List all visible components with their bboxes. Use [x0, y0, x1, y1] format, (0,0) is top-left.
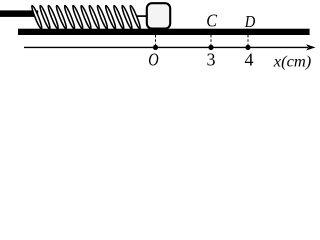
svg-text:O: O — [148, 49, 158, 69]
svg-text:4: 4 — [245, 49, 254, 69]
svg-text:3: 3 — [207, 49, 216, 69]
svg-text:D: D — [244, 12, 255, 31]
svg-text:C: C — [206, 11, 217, 31]
svg-text:x(cm): x(cm) — [273, 54, 312, 71]
